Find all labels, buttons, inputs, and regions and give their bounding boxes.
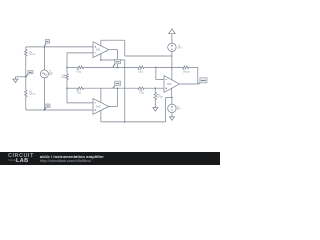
svg-text:1 kΩ: 1 kΩ [77,72,82,74]
svg-text:OA2: OA2 [96,105,101,108]
svg-text:OA3: OA3 [167,83,172,86]
svg-text:15 V: 15 V [176,108,181,110]
svg-text:1 kΩ: 1 kΩ [139,92,144,94]
svg-text:100 Ω: 100 Ω [29,94,35,96]
svg-text:OA1: OA1 [96,49,101,52]
svg-text:100 kΩ: 100 kΩ [183,72,190,74]
svg-text:1 kΩ: 1 kΩ [77,92,82,94]
svg-text:10 kΩ: 10 kΩ [157,96,163,98]
svg-text:15 V: 15 V [178,47,183,49]
svg-text:1 kΩ: 1 kΩ [61,77,66,79]
svg-text:100 Ω: 100 Ω [29,54,35,56]
svg-text:1k): 1k) [49,74,52,76]
svg-text:1 kΩ: 1 kΩ [138,71,143,73]
